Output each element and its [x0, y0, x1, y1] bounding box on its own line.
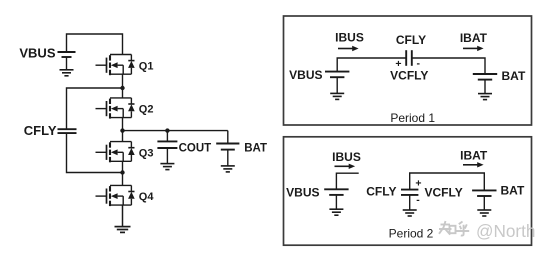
svg-text:IBAT: IBAT: [460, 148, 488, 162]
wire CFLY bottom to ground (Period 2): [409, 195, 411, 210]
box Period 2: [284, 137, 532, 245]
svg-text:Q1: Q1: [139, 60, 154, 72]
wire VBUS stub (Period 2): [336, 173, 358, 189]
svg-text:IBUS: IBUS: [335, 31, 364, 45]
svg-text:Q3: Q3: [139, 147, 154, 159]
wire Q4 source to ground: [122, 205, 124, 227]
wire COUT to ground: [166, 148, 168, 164]
battery VBUS: [58, 52, 76, 57]
wire CFLY bottom to node C: [67, 133, 123, 172]
wire BAT stub: [227, 131, 229, 144]
battery BAT (Period 1): [473, 74, 497, 80]
ground (BAT): [221, 166, 235, 172]
svg-text:VBUS: VBUS: [19, 46, 55, 61]
svg-text:CFLY: CFLY: [396, 33, 426, 47]
arrow IBAT (Period 2): [463, 162, 484, 167]
wire BAT battery to ground (Period 2): [483, 196, 485, 210]
wire node C to Q4 drain: [122, 173, 124, 186]
ground VBUS (Period 2): [329, 209, 343, 215]
node COUT junction dot: [165, 128, 169, 132]
svg-text:IBAT: IBAT: [460, 31, 488, 45]
wire battery to ground: [66, 57, 68, 70]
wire CFLY top to BAT (Period 2): [410, 173, 485, 190]
wire Q1 source to node A: [122, 74, 124, 88]
battery VBUS (Period 1): [325, 72, 349, 78]
battery BAT (Period 2): [472, 190, 496, 196]
ground VBUS (Period 1): [330, 93, 344, 99]
wire Q2 source to node B: [122, 118, 124, 131]
node C junction dot: [120, 170, 124, 174]
arrow IBUS (Period 2): [335, 164, 356, 169]
wire VBUS battery to ground (Period 1): [336, 77, 338, 93]
transistor Q2: [96, 98, 135, 119]
wire VBUS top rail: [67, 34, 123, 55]
ground BAT (Period 2): [477, 210, 491, 216]
ground (Q4): [115, 227, 131, 233]
ground (COUT): [160, 164, 174, 170]
wire main (Period 1): [337, 58, 485, 74]
svg-text:+: +: [415, 177, 421, 189]
svg-text:Q4: Q4: [139, 191, 155, 203]
transistor Q1: [96, 54, 135, 75]
wire node B to BAT: [123, 130, 228, 132]
ground (VBUS): [60, 70, 74, 76]
svg-text:BAT: BAT: [501, 184, 525, 198]
wire VBUS battery to ground (Period 2): [335, 195, 337, 209]
svg-text:VCFLY: VCFLY: [425, 185, 463, 199]
svg-text:CFLY: CFLY: [24, 123, 57, 138]
node B junction dot: [120, 128, 124, 132]
capacitor COUT: [157, 141, 177, 148]
svg-text:Period 1: Period 1: [390, 111, 435, 125]
transistor Q4: [96, 185, 135, 206]
wire node B to Q3 drain: [122, 131, 124, 142]
svg-text:Q2: Q2: [139, 104, 154, 116]
ground BAT (Period 1): [478, 94, 492, 100]
ground CFLY (Period 2): [403, 210, 417, 216]
capacitor CFLY: [58, 129, 77, 133]
svg-text:VBUS: VBUS: [286, 186, 319, 200]
watermark zhihu glyphs: [439, 221, 469, 236]
svg-text:-: -: [416, 194, 420, 206]
svg-text:CFLY: CFLY: [366, 185, 396, 199]
node A junction dot: [120, 86, 124, 90]
svg-text:IBUS: IBUS: [332, 150, 361, 164]
wire node to COUT: [166, 131, 168, 142]
capacitor CFLY (Period 2): [401, 190, 418, 195]
svg-text:@North: @North: [476, 221, 535, 241]
battery BAT: [216, 144, 239, 150]
wire BAT battery to ground (Period 1): [484, 80, 486, 94]
box Period 1: [284, 16, 532, 125]
battery VBUS (Period 2): [324, 189, 348, 195]
transistor Q3: [96, 142, 135, 163]
svg-text:BAT: BAT: [502, 69, 526, 83]
wire node A to Q2 drain: [122, 88, 124, 98]
arrow IBAT (Period 1): [463, 46, 484, 51]
capacitor CFLY plates (Period 1): [406, 50, 412, 66]
svg-text:Period 2: Period 2: [389, 227, 434, 241]
wire node A to CFLY top: [67, 88, 123, 129]
wire BAT to ground: [227, 150, 229, 166]
wire Q3 source to node C: [122, 161, 124, 172]
svg-text:COUT: COUT: [179, 142, 212, 154]
svg-text:BAT: BAT: [244, 142, 267, 154]
svg-text:VCFLY: VCFLY: [390, 68, 428, 82]
svg-text:VBUS: VBUS: [289, 68, 322, 82]
arrow IBUS (Period 1): [338, 46, 359, 51]
